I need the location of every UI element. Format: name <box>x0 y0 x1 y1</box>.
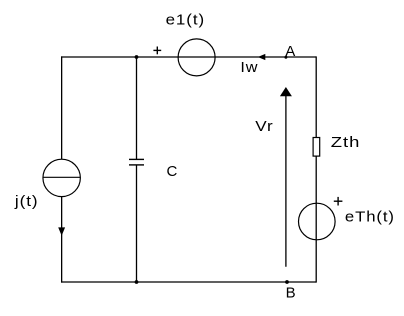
svg-text:e1(t): e1(t) <box>166 12 205 29</box>
arrow Vr (voltage arrow pointing up) <box>280 87 292 267</box>
svg-text:B: B <box>286 284 297 301</box>
svg-text:C: C <box>167 163 179 180</box>
svg-text:Zth: Zth <box>331 134 361 151</box>
arrow current direction of j(t), pointing down <box>58 227 65 235</box>
svg-text:j(t): j(t) <box>14 193 39 210</box>
wire right <box>315 56 317 282</box>
capacitor C plates <box>129 159 144 165</box>
wire top (node A rail) <box>61 56 316 58</box>
impedance Zth (rectangle body) <box>313 138 320 157</box>
wire left <box>61 56 63 282</box>
current source J1 j(t) (circle with perpendicular bar) <box>43 159 80 196</box>
svg-text:eTh(t): eTh(t) <box>345 209 395 226</box>
wire bottom (node B rail) <box>61 281 316 283</box>
wire capacitor branch lower <box>136 165 138 282</box>
arrow Iw (current arrow on top wire, pointing left) <box>258 54 266 60</box>
voltage source e1 (circle, wire passes through) <box>178 39 215 76</box>
plus sign eTh polarity <box>334 197 343 206</box>
node junction dot capacitor top <box>135 55 139 59</box>
plus sign e1 polarity <box>153 47 161 55</box>
svg-text:A: A <box>285 43 296 60</box>
node A dot <box>284 56 287 59</box>
wire capacitor branch upper <box>136 57 138 159</box>
node B dot <box>285 280 289 284</box>
voltage source eTh (circle, wire passes through) <box>299 203 336 240</box>
svg-text:Iw: Iw <box>240 59 258 76</box>
svg-text:Vr: Vr <box>255 118 273 135</box>
node junction dot capacitor bottom <box>135 280 139 284</box>
